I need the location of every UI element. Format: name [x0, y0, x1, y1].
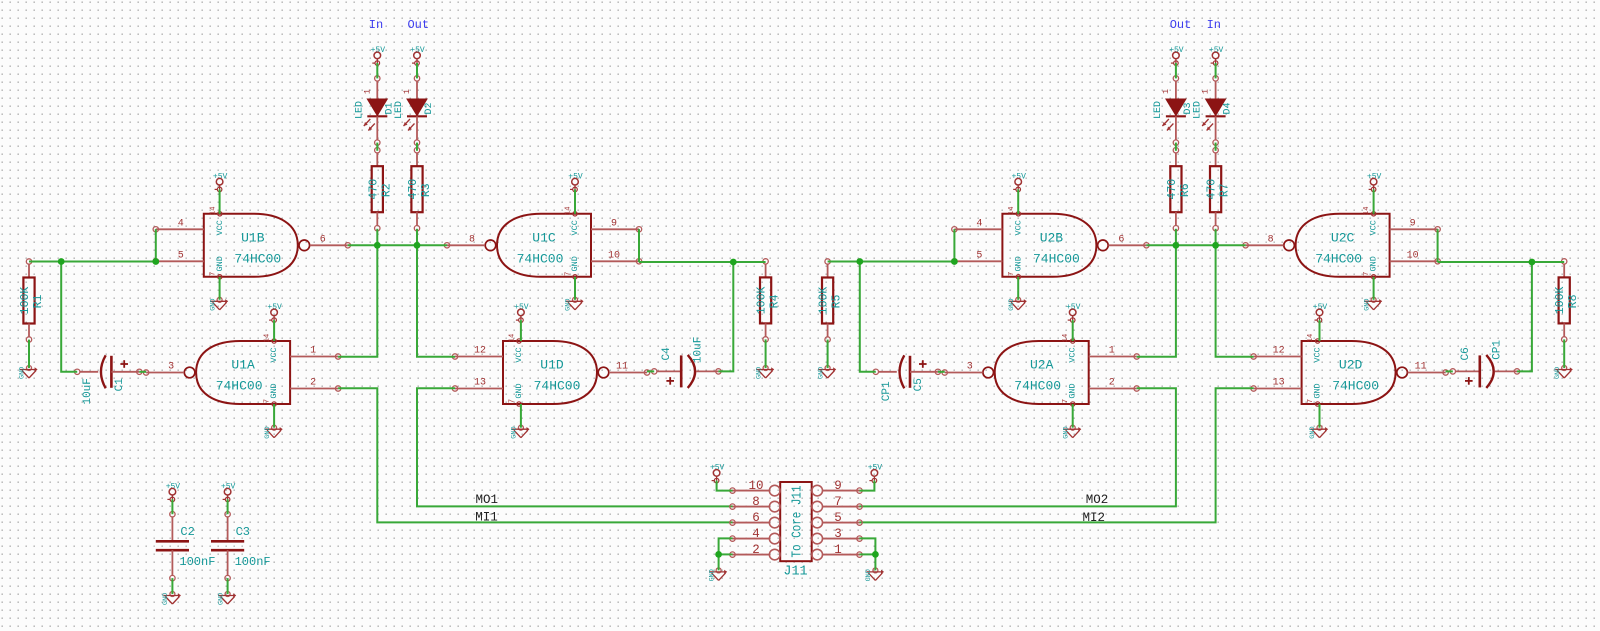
- svg-text:14: 14: [1008, 207, 1016, 215]
- wire: [29, 261, 156, 263]
- svg-text:470: 470: [407, 179, 420, 200]
- svg-text:GND: GND: [1013, 256, 1023, 271]
- ground: [1363, 297, 1382, 311]
- label Out: [1170, 18, 1192, 32]
- svg-text:GND: GND: [1369, 256, 1379, 271]
- wire: [827, 340, 829, 368]
- ground: [865, 568, 884, 582]
- wire: [1137, 245, 1176, 356]
- +5V power: [710, 464, 725, 483]
- wire: [417, 245, 455, 356]
- ground: [1008, 297, 1027, 311]
- LED D3: [1153, 76, 1194, 146]
- svg-text:100nF: 100nF: [235, 555, 271, 569]
- svg-text:GND: GND: [1309, 426, 1317, 438]
- svg-text:+5V: +5V: [868, 464, 883, 473]
- svg-text:GND: GND: [511, 426, 519, 438]
- svg-text:LED: LED: [1193, 101, 1204, 119]
- wire: [574, 277, 576, 300]
- svg-text:7: 7: [834, 495, 842, 509]
- svg-text:VCC: VCC: [514, 347, 524, 362]
- wire: [938, 371, 945, 373]
- svg-text:R8: R8: [1567, 294, 1580, 308]
- resistor R8 100K: [1554, 259, 1580, 342]
- svg-text:470: 470: [367, 179, 380, 200]
- NAND gate U1C (74HC00): [444, 207, 641, 279]
- wire: [1175, 63, 1177, 78]
- wire: [860, 538, 876, 570]
- wire: [1446, 370, 1453, 372]
- resistor R7 470: [1206, 148, 1232, 231]
- wire: [171, 578, 173, 594]
- net label MI2: [1082, 511, 1105, 525]
- svg-text:C5: C5: [913, 378, 925, 391]
- wire: [1563, 339, 1565, 368]
- ground: [817, 366, 836, 380]
- ground: [565, 297, 584, 311]
- LED D4: [1193, 76, 1234, 146]
- label Out: [407, 18, 429, 32]
- wire: [860, 388, 1254, 522]
- svg-text:1: 1: [310, 346, 316, 357]
- svg-text:10: 10: [1407, 250, 1419, 261]
- ground: [755, 366, 774, 380]
- svg-text:10uF: 10uF: [82, 378, 94, 404]
- ground: [1309, 425, 1328, 439]
- svg-text:R3: R3: [420, 183, 433, 197]
- capacitor C4 10uF: [652, 337, 722, 388]
- svg-text:74HC00: 74HC00: [534, 379, 581, 394]
- svg-text:+5V: +5V: [1209, 46, 1224, 55]
- svg-text:GND: GND: [565, 299, 573, 311]
- ground: [209, 297, 228, 311]
- wire: [1072, 320, 1074, 341]
- wire: [1175, 143, 1177, 151]
- wire: [639, 261, 766, 263]
- svg-text:To Core J11: To Core J11: [790, 486, 806, 558]
- connector J11 (To Core J11): [730, 479, 862, 579]
- +5V power: [166, 483, 181, 502]
- svg-text:14: 14: [1307, 334, 1315, 342]
- NAND gate U2D (74HC00): [1251, 334, 1448, 406]
- wire: [417, 388, 733, 506]
- resistor R1 100K: [19, 259, 45, 342]
- svg-text:100nF: 100nF: [179, 555, 215, 569]
- svg-text:6: 6: [1118, 234, 1124, 245]
- svg-text:Out: Out: [1170, 18, 1192, 32]
- svg-text:9: 9: [1410, 218, 1416, 229]
- svg-text:+5V: +5V: [410, 46, 425, 55]
- svg-text:U2B: U2B: [1040, 230, 1064, 245]
- svg-text:14: 14: [209, 207, 217, 215]
- svg-text:GND: GND: [215, 256, 225, 271]
- wire: [719, 553, 733, 555]
- +5V power: [1313, 303, 1328, 322]
- svg-text:+5V: +5V: [514, 303, 529, 312]
- wire: [1438, 261, 1565, 263]
- ground: [708, 568, 727, 582]
- svg-text:74HC00: 74HC00: [517, 251, 564, 266]
- svg-text:10: 10: [608, 250, 620, 261]
- svg-text:GND: GND: [1554, 367, 1562, 379]
- svg-text:U2C: U2C: [1331, 230, 1355, 245]
- svg-text:GND: GND: [19, 367, 27, 379]
- svg-text:VCC: VCC: [215, 220, 225, 235]
- +5V power: [267, 303, 282, 322]
- ground: [19, 366, 38, 380]
- svg-text:1: 1: [834, 543, 842, 557]
- svg-text:J11: J11: [783, 565, 807, 580]
- svg-text:4: 4: [976, 218, 982, 229]
- wire: [376, 229, 378, 246]
- svg-text:C2: C2: [180, 525, 194, 539]
- wire: [376, 143, 378, 151]
- svg-text:MO2: MO2: [1086, 493, 1109, 507]
- svg-text:R7: R7: [1219, 183, 1232, 197]
- wire: [1319, 320, 1321, 341]
- wire: [1373, 277, 1375, 300]
- svg-text:C4: C4: [661, 347, 673, 361]
- +5V power: [371, 46, 386, 65]
- svg-text:12: 12: [474, 346, 486, 357]
- svg-text:VCC: VCC: [1068, 347, 1078, 362]
- capacitor C1 10uF: [75, 355, 143, 404]
- junction: [374, 242, 381, 249]
- svg-text:MI2: MI2: [1082, 511, 1105, 525]
- svg-text:VCC: VCC: [269, 347, 279, 362]
- ground: [264, 425, 283, 439]
- wire: [416, 229, 418, 246]
- svg-text:10: 10: [748, 479, 763, 493]
- svg-text:C3: C3: [236, 525, 250, 539]
- +5V power: [1169, 46, 1184, 65]
- svg-text:1: 1: [402, 89, 412, 94]
- ground: [511, 425, 530, 439]
- +5V power: [1367, 173, 1382, 192]
- LED D2: [394, 76, 435, 146]
- svg-text:74HC00: 74HC00: [1315, 251, 1362, 266]
- wire: [416, 63, 418, 78]
- wire: [338, 388, 732, 522]
- svg-text:8: 8: [1268, 234, 1274, 245]
- NAND gate U1D (74HC00): [452, 334, 649, 406]
- svg-text:+5V: +5V: [267, 303, 282, 312]
- svg-text:VCC: VCC: [570, 220, 580, 235]
- wire: [348, 244, 447, 246]
- svg-text:4: 4: [752, 527, 760, 541]
- junction: [58, 258, 65, 265]
- +5V power: [1011, 173, 1026, 192]
- svg-text:C1: C1: [114, 378, 126, 392]
- svg-text:+5V: +5V: [1367, 173, 1382, 182]
- wire: [155, 229, 157, 261]
- svg-text:U2A: U2A: [1030, 358, 1054, 373]
- svg-text:GND: GND: [1313, 383, 1323, 398]
- svg-text:14: 14: [509, 334, 517, 342]
- svg-text:100K: 100K: [818, 287, 831, 315]
- svg-text:VCC: VCC: [1369, 220, 1379, 235]
- svg-text:3: 3: [967, 362, 973, 373]
- svg-text:2: 2: [310, 378, 316, 389]
- svg-text:4: 4: [178, 218, 184, 229]
- svg-text:VCC: VCC: [1013, 220, 1023, 235]
- svg-text:+5V: +5V: [1313, 303, 1328, 312]
- svg-text:MI1: MI1: [475, 510, 498, 524]
- svg-text:+5V: +5V: [371, 46, 386, 55]
- svg-text:470: 470: [1206, 179, 1219, 200]
- svg-text:U1A: U1A: [231, 358, 255, 373]
- wire: [1215, 143, 1217, 151]
- svg-text:3: 3: [834, 527, 842, 541]
- capacitor C5 CP1: [873, 355, 941, 401]
- resistor R5 100K: [818, 259, 844, 342]
- svg-text:R6: R6: [1179, 183, 1192, 197]
- svg-text:5: 5: [834, 511, 842, 525]
- wire: [273, 320, 275, 341]
- svg-text:9: 9: [834, 479, 842, 493]
- svg-text:C6: C6: [1460, 347, 1472, 360]
- svg-text:R1: R1: [32, 295, 45, 309]
- svg-text:5: 5: [178, 250, 184, 261]
- ground: [217, 592, 236, 606]
- capacitor C2 100nF: [156, 512, 216, 581]
- resistor R4 100K: [756, 259, 782, 342]
- junction: [730, 259, 737, 266]
- svg-text:In: In: [1207, 18, 1221, 32]
- svg-text:GND: GND: [209, 299, 217, 311]
- wire: [139, 371, 146, 373]
- svg-text:GND: GND: [865, 569, 873, 581]
- svg-text:14: 14: [1363, 207, 1371, 215]
- wire: [61, 262, 77, 372]
- resistor R6 470: [1166, 148, 1192, 231]
- +5V power: [213, 173, 228, 192]
- wire: [520, 320, 522, 341]
- svg-text:VCC: VCC: [1313, 347, 1323, 362]
- svg-text:LED: LED: [354, 101, 365, 119]
- +5V power: [868, 464, 883, 483]
- svg-text:100K: 100K: [19, 287, 32, 315]
- wire: [860, 262, 876, 372]
- wire: [1072, 404, 1074, 428]
- svg-text:14: 14: [1062, 334, 1070, 342]
- wire: [717, 481, 733, 491]
- svg-text:GND: GND: [1068, 383, 1078, 398]
- svg-text:11: 11: [616, 362, 628, 373]
- junction: [1212, 242, 1219, 249]
- svg-text:U1B: U1B: [241, 230, 265, 245]
- wire: [638, 229, 640, 262]
- svg-text:8: 8: [469, 234, 475, 245]
- ground: [1062, 425, 1081, 439]
- svg-text:10uF: 10uF: [693, 337, 705, 363]
- svg-text:+5V: +5V: [710, 464, 725, 473]
- svg-text:GND: GND: [269, 383, 279, 398]
- resistor R2 470: [367, 148, 393, 231]
- svg-text:+5V: +5V: [1011, 173, 1026, 182]
- svg-text:+5V: +5V: [1169, 46, 1184, 55]
- svg-text:GND: GND: [514, 383, 524, 398]
- svg-text:GND: GND: [1008, 299, 1016, 311]
- wire: [227, 499, 229, 514]
- wire: [416, 143, 418, 151]
- wire: [1373, 189, 1375, 213]
- wire: [828, 261, 955, 263]
- label In: [1207, 18, 1221, 32]
- NAND gate U2C (74HC00): [1243, 207, 1440, 279]
- svg-text:2: 2: [752, 543, 760, 557]
- svg-text:2: 2: [1109, 378, 1115, 389]
- wire: [1216, 245, 1254, 356]
- svg-text:11: 11: [1415, 362, 1427, 373]
- wire: [219, 189, 221, 213]
- svg-text:GND: GND: [264, 426, 272, 438]
- svg-text:LED: LED: [394, 101, 405, 119]
- svg-text:8: 8: [752, 495, 760, 509]
- svg-text:100K: 100K: [756, 287, 769, 315]
- svg-text:MO1: MO1: [475, 493, 498, 507]
- svg-text:Out: Out: [407, 18, 429, 32]
- svg-text:+5V: +5V: [568, 173, 583, 182]
- svg-text:GND: GND: [1363, 299, 1371, 311]
- wire: [1175, 229, 1177, 246]
- svg-text:U1C: U1C: [532, 230, 556, 245]
- svg-text:U1D: U1D: [540, 358, 564, 373]
- junction: [152, 258, 159, 265]
- svg-text:74HC00: 74HC00: [216, 379, 263, 394]
- NAND gate U1A (74HC00): [143, 334, 340, 406]
- wire: [860, 553, 876, 555]
- ground: [162, 592, 181, 606]
- wire: [1017, 277, 1019, 300]
- +5V power: [514, 303, 529, 322]
- svg-text:470: 470: [1166, 179, 1179, 200]
- wire: [227, 578, 229, 594]
- wire: [1146, 244, 1245, 246]
- net label MO1: [475, 493, 498, 507]
- +5V power: [410, 46, 425, 65]
- svg-text:GND: GND: [162, 593, 170, 605]
- wire: [28, 340, 30, 368]
- wire: [1437, 229, 1439, 262]
- svg-text:+5V: +5V: [221, 483, 236, 492]
- svg-text:13: 13: [1273, 378, 1285, 389]
- svg-text:12: 12: [1273, 346, 1285, 357]
- wire: [719, 538, 733, 570]
- wire: [1215, 63, 1217, 78]
- capacitor C3 100nF: [211, 512, 271, 581]
- wire: [171, 499, 173, 514]
- svg-text:CP1: CP1: [1491, 340, 1503, 360]
- junction: [414, 242, 421, 249]
- wire: [718, 262, 733, 371]
- wire: [1517, 262, 1532, 371]
- junction: [1173, 242, 1180, 249]
- +5V power: [568, 173, 583, 192]
- svg-text:6: 6: [752, 511, 760, 525]
- svg-text:R5: R5: [831, 295, 844, 309]
- wire: [574, 189, 576, 213]
- net label MO2: [1086, 493, 1109, 507]
- svg-text:In: In: [369, 18, 383, 32]
- svg-text:D2: D2: [424, 102, 435, 114]
- svg-text:+5V: +5V: [166, 483, 181, 492]
- svg-text:1: 1: [1201, 89, 1211, 94]
- svg-text:GND: GND: [755, 367, 763, 379]
- svg-text:14: 14: [565, 207, 573, 215]
- junction: [872, 551, 879, 558]
- svg-text:R4: R4: [769, 294, 782, 308]
- svg-text:1: 1: [1161, 89, 1171, 94]
- svg-text:D4: D4: [1223, 102, 1234, 114]
- wire: [376, 63, 378, 78]
- wire: [647, 370, 654, 372]
- label In: [369, 18, 383, 32]
- junction: [951, 258, 958, 265]
- svg-text:LED: LED: [1153, 101, 1164, 119]
- wire: [1319, 404, 1321, 428]
- junction: [1529, 259, 1536, 266]
- wire: [338, 245, 377, 356]
- wire: [1017, 189, 1019, 213]
- svg-text:100K: 100K: [1554, 287, 1567, 315]
- svg-text:CP1: CP1: [881, 381, 893, 401]
- svg-text:74HC00: 74HC00: [234, 251, 281, 266]
- resistor R3 470: [407, 148, 433, 231]
- wire: [953, 229, 955, 261]
- junction: [856, 258, 863, 265]
- capacitor C6 CP1: [1450, 340, 1520, 388]
- net label MI1: [475, 510, 498, 524]
- svg-text:14: 14: [264, 334, 272, 342]
- +5V power: [221, 483, 236, 502]
- svg-text:74HC00: 74HC00: [1033, 251, 1080, 266]
- junction: [715, 551, 722, 558]
- svg-text:GND: GND: [708, 569, 716, 581]
- svg-text:+5V: +5V: [213, 173, 228, 182]
- wire: [1215, 229, 1217, 246]
- svg-text:+5V: +5V: [1066, 303, 1081, 312]
- NAND gate U2A (74HC00): [942, 334, 1139, 406]
- svg-text:9: 9: [611, 218, 617, 229]
- svg-text:5: 5: [976, 250, 982, 261]
- wire: [273, 404, 275, 428]
- wire: [860, 388, 1176, 506]
- svg-text:6: 6: [320, 234, 326, 245]
- svg-text:U2D: U2D: [1339, 358, 1363, 373]
- wire: [219, 277, 221, 300]
- wire: [765, 339, 767, 368]
- +5V power: [1209, 46, 1224, 65]
- LED D1: [354, 76, 395, 146]
- svg-text:1: 1: [362, 89, 372, 94]
- svg-text:GND: GND: [217, 593, 225, 605]
- svg-text:13: 13: [474, 378, 486, 389]
- svg-text:74HC00: 74HC00: [1014, 379, 1061, 394]
- NAND gate U2B (74HC00): [952, 207, 1149, 279]
- svg-text:GND: GND: [1062, 426, 1070, 438]
- wire: [860, 481, 875, 491]
- NAND gate U1B (74HC00): [153, 207, 350, 279]
- wire: [520, 404, 522, 428]
- svg-text:3: 3: [168, 362, 174, 373]
- svg-text:GND: GND: [570, 256, 580, 271]
- svg-text:74HC00: 74HC00: [1332, 379, 1379, 394]
- svg-text:GND: GND: [817, 367, 825, 379]
- +5V power: [1066, 303, 1081, 322]
- svg-text:1: 1: [1109, 346, 1115, 357]
- ground: [1554, 366, 1573, 380]
